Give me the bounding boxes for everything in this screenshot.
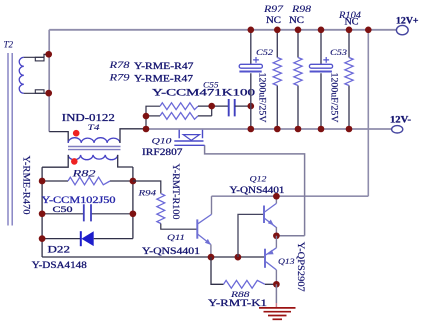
wire T2 winding bottom lead	[24, 92, 49, 94]
junction on 12V+ bus	[274, 27, 281, 34]
junction T2 top tap	[45, 51, 52, 58]
junction R82 left	[39, 178, 46, 185]
wire Q12 collector stub	[275, 196, 277, 203]
svg-text:Q13: Q13	[278, 256, 295, 266]
transformer T4 primary winding	[68, 138, 120, 143]
capacitor C53 plus sign	[323, 57, 329, 63]
svg-text:Y-RME-R47: Y-RME-R47	[134, 74, 193, 84]
svg-text:Y-CCM471K100: Y-CCM471K100	[152, 87, 256, 97]
svg-text:R98: R98	[291, 5, 312, 15]
wire R94 top stub	[133, 181, 161, 194]
wire D22 row	[42, 238, 133, 240]
wire R79 left stub	[146, 115, 160, 117]
transformer T2 winding	[19, 57, 24, 93]
junction on 12V- bus	[295, 126, 302, 133]
resistor R104	[345, 58, 353, 86]
junction on 12V+ bus	[248, 27, 255, 34]
pin box T2 bottom lead	[35, 90, 44, 94]
svg-text:T2: T2	[4, 40, 14, 50]
wire T4 secondary left lead	[42, 155, 68, 167]
wire base row from snubber to Q13	[42, 256, 265, 258]
svg-text:C52: C52	[256, 47, 274, 57]
capacitor C50	[84, 204, 91, 221]
svg-text:D22: D22	[48, 245, 71, 256]
junction on 12V+ bus	[295, 27, 302, 34]
resistor R97	[273, 58, 281, 86]
svg-text:IRF2807: IRF2807	[142, 147, 183, 158]
transistor Q13	[265, 248, 276, 270]
wire C52 column	[250, 30, 252, 129]
junction on 12V+ bus	[318, 27, 325, 34]
polarity dot T4 secondary	[71, 158, 78, 165]
capacitor C55	[229, 99, 235, 116]
junction on 12V- bus	[318, 126, 325, 133]
junction C50 left	[39, 210, 46, 217]
wire R88 right stub	[265, 283, 276, 285]
svg-text:R82: R82	[71, 170, 96, 180]
wire Q11 collector	[211, 196, 213, 214]
junction T4 primary right on bus	[143, 126, 150, 133]
capacitor C53 bottom plate	[310, 70, 332, 72]
svg-text:Q11: Q11	[167, 232, 185, 242]
wire T4 primary left lead	[49, 132, 68, 143]
svg-text:R78: R78	[108, 61, 130, 71]
svg-text:Q10: Q10	[152, 135, 173, 145]
wire C53 column	[320, 30, 322, 129]
resistor R78	[160, 103, 198, 110]
svg-text:12V-: 12V-	[390, 115, 411, 125]
svg-text:NC: NC	[289, 16, 304, 26]
polarity dot T4 primary	[73, 130, 80, 137]
junction Q12 base tap	[235, 254, 242, 261]
wire left vertical from top bus through T2 taps to T4	[48, 30, 50, 132]
wire R82 row stubs	[42, 180, 133, 182]
diode D22	[80, 231, 82, 246]
capacitor C52 plus sign	[253, 57, 259, 63]
transformer T2 core	[8, 53, 12, 226]
svg-text:12V+: 12V+	[396, 15, 419, 25]
svg-text:Y-RME-R47: Y-RME-R47	[134, 62, 194, 72]
wire R98 stubs	[297, 30, 299, 129]
junction T2 bottom tap	[45, 90, 52, 97]
wire C55 right stub	[235, 105, 251, 107]
junction on 12V- bus	[274, 126, 281, 133]
resistor R79	[160, 113, 198, 120]
wire 12V+ top bus	[49, 29, 396, 31]
transistor Q11	[197, 214, 211, 245]
svg-text:R97: R97	[263, 5, 284, 15]
resistor R88	[224, 280, 266, 288]
svg-text:Y-DSA4148: Y-DSA4148	[32, 261, 87, 271]
wire 12V- bus	[146, 128, 392, 130]
wire R78 right to C55	[198, 105, 228, 107]
wire Q10 gate to Q12 emitter node	[205, 145, 305, 236]
capacitor C52 top plate	[239, 64, 262, 68]
wire Q13 emitter vertical	[275, 236, 277, 248]
wire Q11 emitter stub	[210, 244, 212, 257]
svg-text:R94: R94	[137, 188, 156, 198]
wire R78 left riser	[146, 106, 160, 129]
wire collector rail Q11-Q12	[212, 195, 369, 197]
wire R97 stubs	[276, 30, 278, 129]
capacitor C53 top plate	[309, 64, 332, 68]
svg-text:1200uF/25V: 1200uF/25V	[330, 73, 340, 123]
svg-text:T4: T4	[88, 122, 101, 132]
resistor R82	[68, 177, 110, 185]
svg-text:Y-RMT-K1: Y-RMT-K1	[208, 298, 267, 309]
junction Q12 emitter node	[273, 232, 280, 239]
ground	[259, 308, 296, 319]
svg-text:1200uF/25V: 1200uF/25V	[258, 73, 268, 123]
junction R78 R79 right	[208, 103, 215, 110]
transformer T4 core	[68, 147, 121, 150]
wire C50 row stubs	[42, 213, 133, 215]
svg-text:Q12: Q12	[250, 174, 268, 184]
junction R78 R79 left	[143, 113, 150, 120]
transformer T4 secondary winding	[68, 155, 118, 160]
junction on 12V- bus	[248, 126, 255, 133]
wire Q12 emitter node horizontal	[276, 235, 304, 237]
junction on 12V+ bus	[365, 27, 372, 34]
svg-text:Y-QPS2907: Y-QPS2907	[295, 242, 305, 292]
svg-text:Y-RME-R470: Y-RME-R470	[21, 156, 31, 215]
junction Q12 collector on rail	[273, 193, 280, 200]
svg-text:NC: NC	[266, 16, 281, 26]
wire snubber box left rail	[41, 167, 43, 257]
svg-text:Y-RMT-R100: Y-RMT-R100	[170, 164, 180, 220]
wire T4 secondary right lead	[118, 155, 133, 167]
junction R82 right	[130, 178, 137, 185]
junction on 12V+ bus	[346, 27, 353, 34]
svg-text:NC: NC	[345, 18, 359, 28]
resistor R98	[294, 58, 302, 86]
junction C55 to C52 column	[248, 103, 255, 110]
wire Q12 emitter stub	[275, 227, 277, 236]
wire Q13 collector stub	[275, 270, 277, 284]
junction R88 right Q13 collector	[273, 281, 280, 288]
wire ground stem	[275, 303, 277, 308]
wire T2 winding top lead	[24, 54, 49, 57]
transistor Q12	[264, 203, 276, 227]
wire R88 left vertical	[211, 257, 224, 284]
wire Q12 base vertical	[238, 214, 264, 257]
junction on 12V- bus	[346, 126, 353, 133]
transistor Q10 mosfet symbol	[174, 130, 204, 146]
pin box T2 top lead	[35, 57, 44, 61]
capacitor C52 bottom plate	[239, 70, 261, 72]
resistor R94	[157, 194, 165, 224]
wire T4 primary right lead	[120, 129, 146, 143]
junction C50 right	[130, 210, 137, 217]
junction Q11 emitter	[208, 254, 215, 261]
svg-text:C53: C53	[330, 47, 348, 57]
wire R104 stubs	[348, 30, 350, 129]
terminal 12V-	[392, 126, 403, 133]
svg-text:C50: C50	[53, 204, 74, 214]
wire snubber box right rail	[132, 167, 134, 239]
wire to ground	[275, 284, 277, 303]
svg-text:Y-QNS4401: Y-QNS4401	[142, 247, 200, 257]
svg-text:R79: R79	[108, 74, 130, 84]
wire R94 bottom to Q11 base	[161, 224, 198, 230]
terminal 12V+	[396, 25, 408, 34]
wire vertical from top bus down to collector rail	[367, 30, 369, 196]
junction D22 left	[39, 235, 46, 242]
wire R79 right riser	[198, 106, 212, 116]
